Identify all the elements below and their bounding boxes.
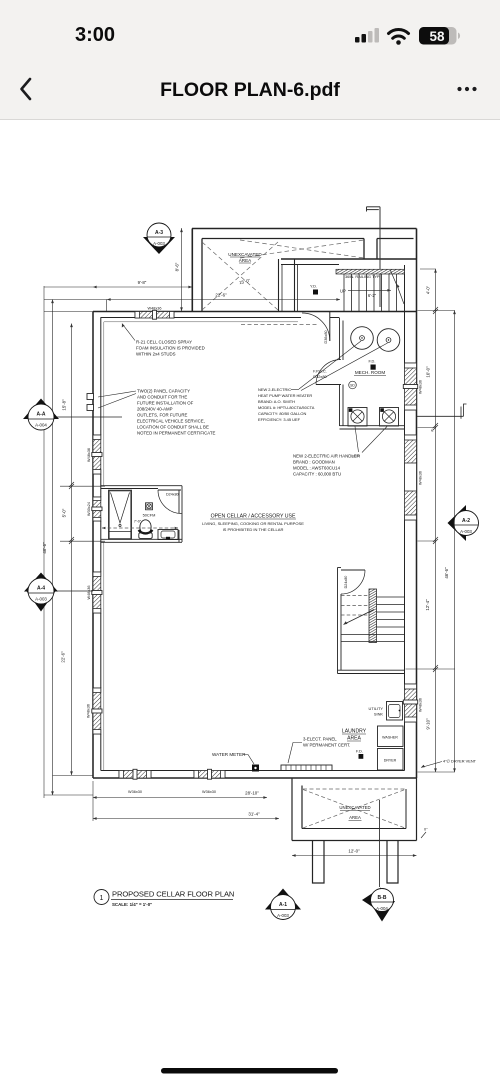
svg-text:9'-10": 9'-10" — [426, 718, 431, 730]
svg-text:46'-6": 46'-6" — [444, 567, 449, 579]
svg-text:A-003: A-003 — [153, 241, 165, 246]
svg-text:D24x80: D24x80 — [344, 576, 348, 589]
text: UNEXCAVATED AREA (top) — [228, 252, 262, 263]
svg-text:0": 0" — [424, 828, 428, 832]
extension line left of top wall — [44, 311, 93, 313]
svg-text:D36x80: D36x80 — [324, 330, 328, 343]
section line B-B vertical (bottom) — [379, 800, 381, 887]
svg-text:LAUNDRY: LAUNDRY — [342, 729, 367, 735]
interior finish line left — [103, 322, 105, 771]
section marker A-2 — [448, 505, 479, 541]
svg-text:B-B: B-B — [378, 895, 387, 901]
wall: upper structure inner top (right of section line) — [377, 238, 414, 240]
section line B-B vertical (top) with hook — [367, 207, 381, 307]
window W36x30 bottom wall (right) — [194, 769, 225, 794]
dim: vertical 8'-6" left of upper structure — [181, 228, 183, 311]
bottom structure east wall — [416, 778, 418, 841]
water meter symbol — [252, 765, 259, 772]
wall: main outer left — [92, 312, 94, 779]
leader air handler 1 — [355, 427, 359, 453]
svg-text:A-004: A-004 — [35, 423, 47, 428]
wall: upper structure outer left — [191, 229, 193, 312]
svg-text:AREA: AREA — [349, 815, 361, 820]
washer — [378, 726, 404, 747]
home indicator — [161, 1068, 338, 1074]
window W48x36 top wall — [135, 307, 174, 320]
wall: upper structure inner left — [201, 239, 203, 312]
utility sink — [387, 702, 403, 721]
wall: main outer right — [416, 259, 418, 778]
smoke detector SD — [349, 381, 357, 389]
cellular bars — [355, 28, 379, 43]
bottom structure dashed X — [303, 790, 405, 829]
shower stall — [109, 491, 131, 540]
dim: left inner string — [71, 324, 73, 776]
note: open cellar accessory use — [202, 514, 304, 533]
wall: main inner right — [404, 265, 406, 771]
door D24x80 stairwell — [341, 570, 365, 594]
svg-text:LIVING, SLEEPING, COOKING OR R: LIVING, SLEEPING, COOKING OR RENTAL PURP… — [202, 521, 304, 526]
water heater 2 — [377, 329, 400, 352]
wall: stair enclosure west wall pair — [294, 259, 296, 311]
title: PROPOSED CELLAR FLOOR PLAN — [112, 890, 234, 908]
leader water meter — [243, 755, 254, 765]
dim: left 46'-6" line — [52, 300, 54, 796]
svg-text:W48x36: W48x36 — [87, 586, 91, 600]
svg-text:MODEL : AWST60CU14: MODEL : AWST60CU14 — [293, 466, 341, 471]
stair dashed treads (upper flight) — [341, 596, 371, 616]
dim: left outer extension line — [43, 286, 45, 798]
dim: right outer 46'-6" — [454, 311, 456, 773]
svg-text:LOCATION OF CONDUIT SHALL BE: LOCATION OF CONDUIT SHALL BE — [137, 425, 209, 430]
bottom structure west wall — [292, 778, 302, 841]
bathroom south wall — [101, 539, 182, 542]
wall: bulkhead left edge — [376, 239, 378, 260]
svg-text:FOAM INSULATION IS PROVIDED: FOAM INSULATION IS PROVIDED — [136, 346, 205, 351]
sink vanity — [158, 530, 178, 540]
extension lines right dims — [406, 269, 456, 772]
leader dryer vent — [421, 762, 442, 768]
floor drain F.D. (mech) — [369, 359, 376, 370]
svg-text:BRAND : GOODMAN: BRAND : GOODMAN — [293, 460, 335, 465]
svg-text:AREA: AREA — [347, 736, 361, 742]
dim: 12'-0" — [292, 855, 417, 857]
svg-text:58: 58 — [429, 29, 445, 44]
svg-text:4"∅ DRYER VENT: 4"∅ DRYER VENT — [443, 759, 477, 764]
svg-text:12'-0": 12'-0" — [348, 849, 360, 854]
text LAUNDRY AREA — [342, 729, 367, 742]
leader panels — [98, 391, 136, 408]
svg-text:W48x36: W48x36 — [87, 448, 91, 462]
stair break diagonal (top) — [391, 271, 405, 305]
svg-text:MODEL #: HPTU-80CTA/50CTA: MODEL #: HPTU-80CTA/50CTA — [258, 405, 315, 410]
svg-text:3:00: 3:00 — [75, 24, 115, 46]
stairwell south wall — [338, 670, 405, 673]
air handler 2 — [380, 408, 399, 427]
leader R-21 to wall — [122, 324, 135, 341]
svg-text:W48x36: W48x36 — [419, 698, 423, 712]
svg-text:SINK: SINK — [374, 712, 383, 717]
svg-text:AREA: AREA — [239, 258, 252, 263]
svg-text:TWO(2) PANEL CAPACITY: TWO(2) PANEL CAPACITY — [137, 389, 190, 394]
mech room west wall — [340, 318, 344, 427]
water heater 1 — [351, 327, 374, 350]
toilet — [134, 520, 153, 539]
electric panel symbol 2 — [87, 405, 94, 411]
title: circle 1 — [94, 890, 109, 905]
stair railing hatch band (top stairs) — [336, 269, 405, 274]
svg-text:A-4: A-4 — [37, 586, 45, 592]
svg-text:A-004: A-004 — [376, 906, 388, 911]
window W48x36 left wall (upper) — [87, 435, 102, 474]
svg-text:CAPACITY : 60,000 BTU: CAPACITY : 60,000 BTU — [293, 472, 341, 477]
wall: upper structure outer right — [416, 229, 418, 260]
wall: main outer bottom — [93, 777, 417, 779]
wall: main inner bottom — [101, 770, 405, 772]
svg-text:A-3: A-3 — [155, 230, 163, 236]
extension lines left dims — [44, 486, 105, 821]
dashed X over unexcavated area (tall) — [202, 240, 364, 310]
svg-text:UP: UP — [340, 288, 346, 293]
svg-text:W30x24: W30x24 — [87, 502, 91, 516]
door D36x80 in top wall — [302, 312, 330, 344]
svg-text:F.D.: F.D. — [356, 749, 363, 754]
svg-text:31'-4": 31'-4" — [248, 812, 260, 817]
bottom structure bottom band — [292, 840, 417, 842]
svg-text:IS PROHIBITED IN THE CELLAR: IS PROHIBITED IN THE CELLAR — [223, 527, 284, 532]
back chevron — [22, 79, 31, 99]
dim: 22'-6" horizontal — [44, 299, 340, 301]
svg-text:UNEXCAVATED: UNEXCAVATED — [339, 805, 370, 810]
wall: landing west wall pair — [278, 259, 280, 311]
svg-text:D24x80: D24x80 — [166, 493, 179, 497]
svg-text:W36x30: W36x30 — [128, 790, 142, 794]
section marker A-A with cut line — [23, 399, 122, 431]
wall: band over stair top — [281, 258, 416, 260]
wall: upper structure outer top — [192, 228, 417, 230]
bathroom north wall — [101, 486, 182, 489]
svg-text:Y.D.: Y.D. — [310, 284, 317, 289]
svg-text:NOTED IN PERMANENT CERTIFICATE: NOTED IN PERMANENT CERTIFICATE — [137, 431, 216, 436]
leader heater2 to note — [301, 343, 388, 391]
note: 3-elect panel — [303, 737, 350, 748]
stair treads (top) — [344, 274, 397, 311]
svg-text:BRAND: A.O. SMITH: BRAND: A.O. SMITH — [258, 399, 295, 404]
svg-text:W48x36: W48x36 — [419, 380, 423, 394]
note: TWO(2) panel capacity — [137, 389, 216, 436]
leader heater1 to note — [299, 341, 361, 389]
svg-text:R-21 CELL CLOSED SPRAY: R-21 CELL CLOSED SPRAY — [136, 340, 192, 345]
svg-text:W48x36: W48x36 — [87, 704, 91, 718]
svg-text:F.D.: F.D. — [369, 359, 376, 364]
wall: main inner left — [100, 318, 102, 771]
svg-text:MECH. ROOM: MECH. ROOM — [355, 370, 386, 375]
status/header background — [0, 0, 500, 119]
svg-text:A-003: A-003 — [35, 597, 47, 602]
bathroom dashed dimension line — [102, 527, 178, 529]
stair up arrow line 6'-2" — [348, 289, 391, 291]
note: air handler — [293, 454, 360, 477]
footing leg right — [387, 841, 398, 884]
note: heat pump water heater — [258, 387, 315, 422]
svg-text:5'-0": 5'-0" — [62, 508, 67, 517]
section marker A-3 — [143, 223, 175, 254]
mech room south wall — [340, 426, 405, 429]
wall: band lower line — [281, 264, 339, 266]
dim: right inner string — [435, 269, 437, 772]
svg-text:15'-8": 15'-8" — [62, 399, 67, 411]
door D24x80 bathroom — [158, 490, 182, 514]
wall: main outer top — [93, 311, 417, 313]
svg-text:W48x36: W48x36 — [148, 307, 162, 311]
svg-text:W/ PERMANENT CERT.: W/ PERMANENT CERT. — [303, 743, 350, 748]
svg-text:SD: SD — [350, 384, 355, 388]
wall: unexcavated inner step vertical — [363, 239, 365, 260]
window W48x36 left wall (lower) — [87, 688, 103, 734]
section marker A-1 — [265, 889, 301, 920]
svg-text:AND CONDUIT FOR THE: AND CONDUIT FOR THE — [137, 395, 187, 400]
stairwell west wall (center) — [338, 568, 342, 674]
dim: 9'-8" horizontal — [44, 286, 192, 288]
svg-text:8'-6": 8'-6" — [175, 262, 180, 271]
ellipsis menu — [457, 87, 476, 91]
svg-text:FUTURE INSTALLATION OF: FUTURE INSTALLATION OF — [137, 401, 194, 406]
svg-text:OPEN CELLAR / ACCESSORY USE: OPEN CELLAR / ACCESSORY USE — [211, 514, 296, 520]
window W48x36 left wall (middle) — [87, 572, 102, 613]
wifi icon — [389, 30, 409, 45]
svg-text:SCALE: 1/4" = 1'-0": SCALE: 1/4" = 1'-0" — [112, 902, 152, 907]
svg-text:HEAT PUMP WATER HEATER: HEAT PUMP WATER HEATER — [258, 393, 312, 398]
svg-text:CAPACITY: 80/50 GALLON: CAPACITY: 80/50 GALLON — [258, 411, 306, 416]
text 36IN. RAILING TYP. — [345, 274, 380, 279]
stair treads (center) — [341, 597, 405, 642]
svg-text:DRYER: DRYER — [384, 759, 397, 763]
window W48x36 right wall (mid) — [405, 435, 423, 520]
bottom structure inner box — [302, 789, 406, 829]
window W48x36 right wall (laundry) — [403, 684, 422, 722]
svg-text:6'-2": 6'-2" — [368, 293, 377, 298]
svg-text:50CFM: 50CFM — [143, 513, 156, 518]
svg-text:208/240V 40-AMP: 208/240V 40-AMP — [137, 407, 173, 412]
exhaust fan 50CFM — [143, 503, 156, 518]
interior finish line top — [104, 321, 298, 323]
svg-text:OUTLETS, FOR FUTURE: OUTLETS, FOR FUTURE — [137, 413, 188, 418]
svg-text:A-2: A-2 — [462, 518, 470, 524]
svg-text:W48x36: W48x36 — [419, 471, 423, 485]
window W36x30 bottom wall (left) — [119, 769, 151, 794]
wall: main inner top — [101, 317, 340, 319]
battery 58 — [419, 27, 460, 45]
floor drain F.D. (laundry) — [356, 749, 363, 759]
electrical panel bank on bottom wall — [281, 765, 332, 771]
svg-text:NEW 2-ELECTRIC: NEW 2-ELECTRIC — [258, 387, 291, 392]
svg-text:EFFICIENCY: 3.45 UEF: EFFICIENCY: 3.45 UEF — [258, 417, 301, 422]
yard drain Y.D. — [310, 284, 318, 295]
window W48x36 right wall (mech room) — [403, 363, 422, 410]
dryer vent duct at right wall — [417, 404, 467, 419]
svg-text:UNEXCAVATED: UNEXCAVATED — [228, 252, 262, 257]
text MECH. ROOM — [355, 370, 386, 375]
dim: bottom 31'-4" — [93, 818, 279, 820]
svg-text:46'-6": 46'-6" — [42, 542, 47, 554]
svg-text:WITHIN 2x4 STUDS: WITHIN 2x4 STUDS — [136, 352, 176, 357]
dim: bottom 28'-10" — [93, 797, 267, 799]
bathroom east wall — [179, 486, 182, 542]
stair center railing (hatched) — [369, 589, 377, 643]
section marker A-4 with cut line — [24, 573, 93, 612]
dryer — [378, 749, 404, 771]
svg-text:A-A: A-A — [37, 412, 46, 418]
svg-text:A-003: A-003 — [277, 913, 289, 918]
dashed beam line below top wall — [241, 324, 318, 326]
svg-text:NEW 2-ELECTRIC AIR HANDLER: NEW 2-ELECTRIC AIR HANDLER — [293, 454, 360, 459]
svg-text:PROPOSED CELLAR FLOOR PLAN: PROPOSED CELLAR FLOOR PLAN — [112, 890, 234, 899]
svg-text:10'-0": 10'-0" — [426, 366, 431, 378]
svg-text:UTILITY: UTILITY — [369, 706, 384, 711]
svg-text:1: 1 — [100, 895, 104, 902]
window W30x24 left wall (bathroom) — [87, 497, 102, 521]
svg-text:12'-4": 12'-4" — [425, 599, 430, 611]
svg-text:28'-10": 28'-10" — [245, 791, 259, 796]
svg-text:W36x30: W36x30 — [202, 790, 216, 794]
svg-text:9'-8": 9'-8" — [138, 280, 147, 285]
note: R-21 insulation — [136, 340, 205, 357]
svg-text:WASHER: WASHER — [382, 736, 398, 740]
wall: upper structure inner top (left of section line) — [202, 238, 364, 240]
svg-text:A-1: A-1 — [279, 902, 287, 908]
svg-text:ELECTRICAL VEHICLE SERVICE,: ELECTRICAL VEHICLE SERVICE, — [137, 419, 205, 424]
text UNEXCAVATED AREA (bottom) — [339, 805, 370, 820]
svg-text:4'-0": 4'-0" — [426, 285, 431, 294]
note 0" at right of bottom structure — [421, 832, 426, 838]
svg-text:A-003: A-003 — [460, 529, 472, 534]
footing leg left — [313, 841, 325, 884]
svg-text:WATER METER: WATER METER — [212, 752, 246, 757]
svg-text:3-ELECT. PANEL: 3-ELECT. PANEL — [303, 737, 337, 742]
stair direction arrow — [344, 610, 375, 625]
svg-text:22'-6": 22'-6" — [61, 651, 66, 663]
section marker B-B — [362, 888, 395, 922]
bottom structure dashed top — [303, 788, 405, 790]
svg-text:FLOOR PLAN-6.pdf: FLOOR PLAN-6.pdf — [160, 79, 340, 101]
leader air handler 2 — [362, 427, 387, 453]
svg-text:22'-6": 22'-6" — [215, 293, 227, 298]
svg-text:36IN. RAILING TYP.: 36IN. RAILING TYP. — [345, 274, 380, 279]
leader 3-elect panel — [288, 743, 302, 764]
air handler 1 — [348, 408, 367, 427]
door F.P.S.C. D32x80 (mech room) — [313, 360, 341, 385]
text UTILITY SINK — [369, 706, 384, 717]
electric panel symbol 1 — [87, 394, 94, 400]
